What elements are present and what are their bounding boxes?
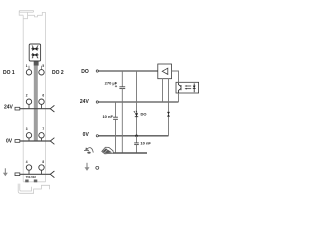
svg-text:24V: 24V [80,99,90,105]
terminal 8 [39,165,44,170]
terminal 6 [39,99,44,104]
module housing bottom edge [23,181,45,183]
node DO terminal [96,70,98,72]
svg-text:750-502: 750-502 [26,175,37,179]
power jumper contact symbol [84,148,93,153]
wire DO rail [99,70,158,72]
mounting foot left [25,180,28,183]
svg-text:8: 8 [42,160,44,164]
wire 24V jumper row [20,108,51,110]
svg-text:3: 3 [26,127,28,131]
node 24V terminal [96,101,98,103]
svg-text:DO: DO [141,112,147,117]
stem terminal 6 to 24V wire [41,104,43,109]
svg-text:DO: DO [81,69,89,75]
capacitor C1 270uF electrolytic [119,87,125,89]
wire 24V rail [99,101,179,103]
svg-text:6: 6 [42,94,44,98]
driver U1 triangle [162,68,168,74]
module housing right edge [45,12,47,181]
suppressor diode V2 [167,112,170,114]
svg-text:270 µF: 270 µF [105,80,118,85]
wire C3 to FE rail [136,145,138,153]
LED pair A (channel 1) [31,46,38,51]
svg-text:1: 1 [26,64,28,68]
wire 0V jumper row [20,140,51,142]
pin numbers 1-8 [26,64,45,164]
wire entry lug 0V [15,140,20,143]
wire U1 to optocoupler U2 [172,71,179,82]
stem terminal 1 to block [28,66,30,70]
wire entry lug earth [15,173,20,176]
ground symbol module earth row [3,168,8,176]
wire U2 to 24V rail [178,93,180,102]
DIN rail profile [18,184,49,194]
power jumper contact arrow earth [50,171,54,178]
svg-text:DO 2: DO 2 [52,70,64,76]
svg-text:0V: 0V [6,139,13,145]
capacitor C3 10nF [134,143,139,145]
node legend circle [96,166,99,169]
polarity plus C1 [115,85,117,87]
svg-text:5: 5 [42,64,44,68]
wire 0V rail [99,135,169,137]
capacitor C2 10nF [113,117,118,119]
svg-text:10 nF: 10 nF [140,141,151,146]
power jumper contact arrow 0V [50,138,54,145]
dark connector block under LED box [34,61,39,66]
terminal 3 [26,133,31,138]
svg-text:7: 7 [42,127,44,131]
svg-text:4: 4 [26,160,28,164]
wire FE rail [113,152,147,154]
junction dot 0V rail [135,135,138,138]
terminal 2 [26,99,31,104]
LED pair B (channel 2) [31,54,38,59]
module center contact strip [34,66,38,141]
module housing left edge [22,15,24,182]
node 0V terminal [96,135,98,137]
output driver U1 box [158,64,172,79]
stem terminal 4 to earth wire [28,170,30,174]
module housing top profile [19,10,45,18]
wire 0V rail to C3 [136,136,138,143]
LED V1 status DO [134,111,138,117]
U2 emitter LED [193,83,195,92]
power jumper contact arrow 24V [50,105,54,112]
svg-text:24V: 24V [4,105,14,111]
wire U1 pin to 0V rail via V2 [168,79,170,136]
wire C2 to FE rail [115,119,117,153]
stem terminal 3 to 0V wire [28,138,30,141]
mounting foot right [34,180,38,183]
svg-text:2: 2 [26,94,28,98]
stem terminal 8 to earth wire [41,170,43,174]
wire DO rail to 0V rail via LED [136,71,138,136]
wire earth jumper row [20,173,51,175]
ground symbol legend [85,163,90,171]
rail contact blade icon [102,147,113,154]
svg-text:0V: 0V [83,132,90,138]
stem terminal 5 to block [41,66,43,70]
terminal 5 [39,70,44,75]
wire DO rail to C1 [121,71,123,87]
svg-text:10 nF: 10 nF [102,114,113,119]
U2 light arrows [186,86,192,89]
wire U1 pin to 24V rail [162,79,164,102]
status LED box [29,44,40,61]
stem terminal 7 to 0V wire [41,138,43,141]
terminal 7 [39,133,44,138]
wire entry lug 24V [15,107,20,110]
stem terminal 2 to 24V wire [28,104,30,109]
terminal 1 [26,70,31,75]
wire C1 to FE rail [121,89,123,153]
wire 24V rail to C2 [115,102,117,117]
terminal 4 [26,165,31,170]
svg-text:DO 1: DO 1 [3,70,15,76]
optocoupler U2 box [176,82,199,93]
U2 phototransistor [179,83,182,93]
